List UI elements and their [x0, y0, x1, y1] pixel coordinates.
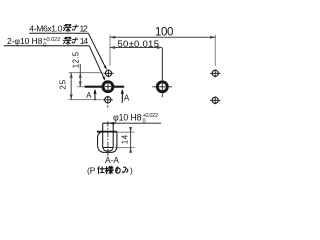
extension line: dim 14 bottom — [115, 147, 135, 149]
hole M6 top-left — [105, 70, 111, 76]
leader underline: label 4-M6 — [29, 32, 88, 34]
svg-text:14: 14 — [80, 36, 89, 46]
svg-text:25: 25 — [58, 79, 67, 89]
centerline dashes: middle hole — [152, 87, 172, 97]
centerline cross: middle hole — [159, 81, 166, 92]
extension line: dim 100 left — [109, 35, 111, 66]
kana み — [123, 167, 128, 172]
extension line: dim 25 bottom (y=99.6) — [69, 99, 102, 101]
svg-text:A-A: A-A — [105, 155, 119, 165]
svg-text:0: 0 — [143, 119, 146, 125]
svg-text:14: 14 — [120, 134, 129, 144]
svg-text:100: 100 — [155, 26, 174, 38]
section arrow A right — [121, 91, 123, 103]
hole M6 top-right — [212, 70, 218, 76]
svg-text:12: 12 — [80, 24, 89, 34]
extension line: dim 12.5 bottom (y=86.7) — [77, 86, 84, 88]
kana さ (label1) — [73, 25, 79, 30]
dimension line 100 — [110, 36, 215, 39]
svg-text:): ) — [130, 166, 133, 176]
dimension line 12.5 — [79, 64, 82, 87]
hole φ10 H8 left (big ring) — [103, 82, 113, 92]
svg-text:0: 0 — [43, 42, 46, 48]
section cutting plane line A-A — [85, 86, 125, 88]
svg-text:A: A — [124, 93, 130, 102]
kanji 深 (label1) — [63, 25, 71, 32]
leader: label 2-φ10 to big hole — [89, 46, 104, 78]
svg-text:4-M6x1.0: 4-M6x1.0 — [29, 24, 62, 34]
kana の — [116, 167, 121, 173]
section arrow A left — [94, 91, 96, 101]
section A-A: centerline — [107, 121, 109, 156]
hole M6 bottom-left — [105, 97, 111, 103]
leader underline: label 2-φ10 — [4, 45, 89, 47]
dimension line 14 — [129, 127, 132, 153]
centerline cross: left big hole — [104, 81, 113, 93]
hole φ10 H8 middle (big ring) — [157, 82, 167, 92]
kana さ (label2) — [72, 38, 78, 43]
extension line: dim 100 right — [214, 35, 216, 66]
svg-text:A: A — [86, 91, 92, 100]
section A-A: hole walls — [103, 132, 114, 148]
extension line: dim 14 top — [117, 131, 134, 133]
centerline ext: middle hole up to dim 50 — [161, 48, 163, 80]
svg-text:50±0.015: 50±0.015 — [117, 39, 159, 50]
section A-A: boss above top face — [103, 123, 114, 131]
section A-A: body outline — [98, 132, 117, 153]
svg-text:12.5: 12.5 — [71, 51, 80, 68]
kanji 仕 — [98, 167, 104, 174]
section A-A: top face (thick) — [97, 131, 117, 133]
hole M6 bottom-right — [212, 97, 218, 103]
dimension line 50±0.015 — [110, 46, 162, 49]
svg-text:(P: (P — [87, 166, 96, 176]
svg-text:φ10 H8: φ10 H8 — [113, 112, 142, 122]
leader: label 4-M6 to top-left M6 hole — [88, 33, 105, 67]
dimension line 25 — [70, 73, 73, 100]
kanji 深 (label2) — [63, 37, 71, 44]
kanji 様 — [105, 166, 113, 174]
svg-text:2-φ10 H8: 2-φ10 H8 — [7, 36, 43, 46]
extension line: dim 25/12.5 top (y=72.6) — [69, 72, 103, 74]
section A-A: hole bottom — [103, 148, 114, 152]
leader underline: φ10 H8 label in section — [111, 122, 161, 124]
